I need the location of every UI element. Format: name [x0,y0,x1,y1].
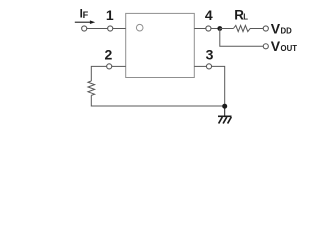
pin 4 terminal [206,26,211,31]
svg-text:V: V [271,38,281,54]
svg-text:F: F [83,10,89,20]
svg-text:DD: DD [281,27,293,36]
wire node to RL [220,28,234,30]
pin 2 terminal [107,64,112,69]
node junction (ground) [222,104,227,109]
pin 1 terminal [108,26,113,31]
wire box to pin 4 [194,28,206,30]
VOUT label [271,38,297,54]
wire pin 1 to box [113,28,126,30]
VOUT terminal [263,44,268,49]
pin 1 index dot marker [136,24,143,31]
svg-text:OUT: OUT [281,44,298,53]
node junction (output) [217,26,222,31]
input terminal (anode side) [82,26,87,31]
RL label [234,7,248,22]
resistor (base-emitter) vertical zigzag [88,81,95,95]
svg-text:1: 1 [106,7,114,23]
wire input to pin 1 [87,28,108,30]
wire node down and right to VOUT [220,29,263,47]
wire resistor to bottom rail [91,95,224,106]
wire pin 3 down to ground rail [212,66,225,106]
svg-text:L: L [243,12,248,21]
svg-text:3: 3 [206,47,214,63]
resistor RL [233,25,252,31]
pin 3 terminal [206,64,211,69]
svg-text:2: 2 [105,47,113,63]
wire pin 2 to box [112,65,126,67]
ground [218,106,232,123]
IC box U1 [126,13,195,77]
wire RL to VDD terminal [253,28,264,30]
IF arrow [75,20,95,24]
svg-text:4: 4 [205,7,213,23]
wire box to pin 3 [194,65,206,67]
wire pin 2 left and down to resistor [91,66,106,81]
IF label [80,9,89,21]
VDD label [271,20,292,36]
wire pin 4 to node [211,28,220,30]
VDD terminal [263,26,268,31]
svg-text:V: V [271,20,281,36]
